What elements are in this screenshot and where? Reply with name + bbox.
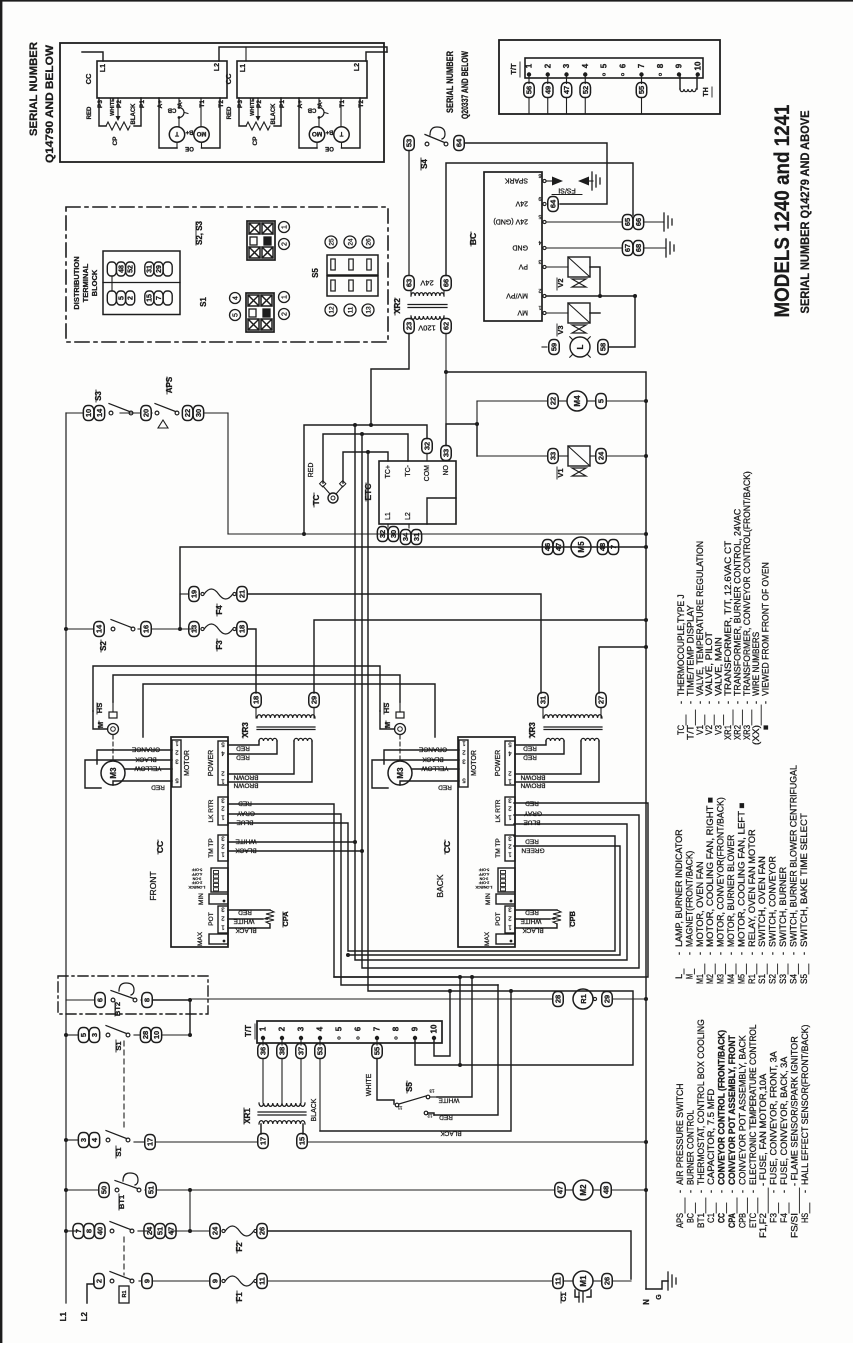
svg-text:FS/SI: FS/SI — [789, 1213, 799, 1238]
svg-text:-: - — [696, 1190, 706, 1193]
wire HS riser — [399, 702, 401, 712]
svg-text:B+: B+ — [185, 129, 193, 135]
wire S5 13 WHITE — [430, 1096, 437, 1098]
svg-text:RED: RED — [238, 909, 252, 916]
wire riser x511 BLACK — [320, 991, 511, 1131]
svg-text:4-OFF: 4-OFF — [478, 872, 489, 876]
svg-text:24V: 24V — [515, 200, 528, 207]
right circle MO — [194, 127, 209, 142]
svg-text:C1: C1 — [706, 1213, 716, 1223]
svg-text:CB: CB — [167, 107, 176, 113]
terminal pill 55 — [376, 1040, 378, 1045]
wire BT2 to S1 net — [153, 1000, 191, 1035]
svg-text:5: 5 — [233, 313, 240, 317]
svg-text:6: 6 — [354, 1026, 363, 1031]
svg-text:CONVEYOR POT ASSEMBLY, BACK: CONVEYOR POT ASSEMBLY, BACK — [737, 1035, 747, 1185]
svg-text:POT: POT — [208, 912, 215, 925]
svg-text:-: - — [675, 1190, 685, 1193]
svg-text:11: 11 — [348, 306, 355, 313]
svg-text:4: 4 — [233, 296, 240, 300]
svg-text:F4: F4 — [215, 605, 224, 615]
wire lamp to MV/PV net — [609, 296, 636, 347]
svg-text:M: M — [383, 722, 392, 728]
svg-text:-: - — [778, 952, 788, 955]
conveyor pot CPA/CPB — [266, 910, 274, 924]
TM TP connector — [218, 835, 228, 861]
right circle T — [334, 127, 349, 142]
fuse F2 — [210, 1224, 221, 1239]
svg-text:CPB: CPB — [737, 1213, 747, 1228]
svg-text:SWITCH, OVEN FAN: SWITCH, OVEN FAN — [757, 856, 767, 947]
pot wires RED WHITE BLACK — [228, 909, 270, 911]
wire M4 to bus — [607, 400, 647, 402]
svg-text:CONVEYOR CONTROL (FRONT/BACK): CONVEYOR CONTROL (FRONT/BACK) — [717, 1030, 727, 1185]
svg-text:3: 3 — [90, 1033, 99, 1037]
conveyor control CC main box front — [171, 737, 228, 947]
svg-text:MOTOR: MOTOR — [471, 750, 478, 776]
svg-text:BROWN: BROWN — [520, 774, 545, 781]
svg-text:MOTOR, COOLING FAN, LEFT ■: MOTOR, COOLING FAN, LEFT ■ — [736, 803, 746, 947]
svg-text:64: 64 — [455, 138, 464, 147]
wire junction down to bus Y534 — [227, 413, 229, 534]
svg-text:59: 59 — [550, 343, 559, 351]
contact circle 2 — [279, 239, 290, 250]
svg-text:L2: L2 — [405, 512, 412, 520]
magnet M — [108, 724, 119, 735]
terminal pill 38 — [281, 1040, 283, 1045]
svg-text:22: 22 — [549, 397, 558, 405]
svg-text:-: - — [747, 952, 757, 955]
relay R1 — [573, 989, 593, 1009]
contact circle 4 — [230, 293, 241, 304]
wire riser x472 to S5 — [437, 977, 472, 1097]
svg-text:29: 29 — [310, 696, 319, 704]
hall sensor HS — [109, 712, 117, 718]
svg-text:1-ON/BCK: 1-ON/BCK — [475, 885, 493, 889]
svg-text:4: 4 — [316, 1026, 325, 1031]
svg-text:52: 52 — [581, 86, 590, 94]
svg-text:L2: L2 — [214, 63, 221, 71]
wire BC 24V(GND) to ground — [546, 221, 622, 223]
svg-text:26: 26 — [603, 1277, 612, 1285]
thermostat BT1 row — [99, 1183, 110, 1198]
conveyor pot CPA/CPB — [553, 910, 561, 924]
wire front HS to back HS Y675 — [113, 675, 400, 702]
svg-text:FUSE, CONVEYOR, BACK, 3A: FUSE, CONVEYOR, BACK, 3A — [779, 1057, 789, 1185]
svg-text:2: 2 — [543, 63, 552, 68]
svg-text:CC: CC — [224, 73, 233, 84]
svg-text:-: - — [737, 1190, 747, 1193]
svg-text:BT2: BT2 — [113, 1002, 122, 1016]
switch S1 row upper — [78, 1028, 89, 1043]
svg-text:2: 2 — [282, 312, 289, 316]
svg-text:HS: HS — [95, 703, 104, 713]
wire BC MV/PV — [546, 295, 635, 297]
motor M5 row on bus Y547 — [542, 540, 553, 555]
svg-text:RELAY, OVEN FAN MOTOR: RELAY, OVEN FAN MOTOR — [747, 829, 757, 947]
svg-text:-: - — [695, 952, 705, 955]
svg-text:F2: F2 — [235, 1242, 244, 1252]
conveyor control CC box (inset) — [97, 61, 227, 98]
svg-text:15: 15 — [298, 1137, 307, 1145]
svg-text:120V: 120V — [418, 324, 436, 333]
svg-text:SWITCH, BURNER BLOWER CENTRIF: SWITCH, BURNER BLOWER CENTRIFUGAL — [788, 765, 798, 947]
svg-text:28: 28 — [554, 995, 563, 1003]
svg-text:58: 58 — [599, 343, 608, 351]
electronic temperature control ETC box — [379, 461, 456, 524]
svg-text:WHITE: WHITE — [235, 838, 257, 845]
MAX jumper — [496, 934, 515, 944]
terminal strip T/T (main) — [257, 1021, 442, 1043]
svg-text:10: 10 — [693, 61, 702, 70]
svg-text:-: - — [705, 952, 715, 955]
svg-text:-: - — [674, 952, 684, 955]
wire T2 loop under right circle — [202, 98, 221, 148]
contact circle 26 — [362, 236, 374, 248]
svg-text:31: 31 — [412, 533, 421, 541]
relay coil AR1 — [119, 1286, 129, 1303]
svg-text:S2: S2 — [99, 641, 108, 651]
svg-text:LK RTR: LK RTR — [208, 799, 215, 822]
wire 53 BLACK down — [319, 1059, 321, 1132]
svg-text:T: T — [175, 130, 179, 137]
XR2 24V secondary coil — [411, 293, 444, 296]
svg-text:2: 2 — [128, 296, 135, 300]
terminal pill 36 — [262, 1040, 264, 1045]
wire F3 to front XR3 — [248, 629, 257, 693]
terminal pill 53 — [319, 1040, 321, 1045]
wire 53 to XR2 secondary — [408, 151, 410, 276]
svg-text:53: 53 — [316, 1047, 325, 1055]
svg-text:TM TP: TM TP — [208, 838, 215, 857]
svg-text:LAMP, BURNER INDICATOR: LAMP, BURNER INDICATOR — [674, 829, 684, 947]
svg-text:ORANGE: ORANGE — [418, 746, 447, 753]
wire CC2 L1 drop — [245, 47, 247, 61]
MAX jumper — [209, 934, 228, 944]
svg-text:BLACK: BLACK — [422, 756, 444, 763]
svg-text:-: - — [685, 1190, 695, 1193]
svg-text:MAX: MAX — [197, 931, 204, 946]
svg-text:9: 9 — [143, 1279, 152, 1283]
svg-text:2: 2 — [278, 1026, 287, 1031]
MIN jumper — [496, 894, 515, 904]
svg-text:18: 18 — [238, 625, 247, 633]
switch S1 rocker — [246, 293, 274, 332]
XR2 core — [408, 304, 447, 306]
terminal pills 48 52 — [107, 262, 116, 276]
svg-text:CPA: CPA — [727, 1213, 737, 1228]
svg-text:WHITE: WHITE — [250, 98, 256, 116]
svg-text:VIEWED FROM FRONT OF OVEN: VIEWED FROM FRONT OF OVEN — [761, 562, 771, 696]
svg-text:MV/PV: MV/PV — [506, 292, 528, 299]
burner indicator lamp L — [549, 340, 560, 355]
LK RTR connector — [218, 797, 228, 825]
svg-text:CC: CC — [84, 73, 93, 84]
svg-text:P2: P2 — [116, 100, 123, 108]
svg-text:48: 48 — [118, 265, 125, 273]
svg-text:COM: COM — [424, 465, 431, 482]
svg-text:38: 38 — [278, 1047, 287, 1055]
svg-text:BLACK: BLACK — [522, 927, 544, 934]
wire F2 to M1 branch — [268, 1231, 632, 1279]
wire node to M4 row — [476, 401, 478, 424]
contact circle 5 — [230, 310, 241, 321]
svg-text:RED: RED — [238, 800, 252, 807]
svg-text:2-OFF: 2-OFF — [191, 881, 202, 885]
svg-text:POT: POT — [495, 912, 502, 925]
oven fan motor M1 row — [553, 1274, 564, 1289]
svg-text:4: 4 — [538, 239, 541, 245]
svg-text:R1: R1 — [747, 974, 757, 984]
svg-text:GND: GND — [512, 244, 528, 251]
contact circle 24 — [344, 236, 356, 248]
svg-text:SWITCH, CONVEYOR: SWITCH, CONVEYOR — [768, 856, 778, 947]
row S2 conveyor switch — [94, 622, 105, 637]
POT connector — [505, 906, 515, 933]
svg-text:CC: CC — [717, 1213, 727, 1223]
contact circle 13 — [362, 304, 374, 316]
oven fan switch row with F2 — [73, 1224, 84, 1239]
svg-text:F1,F2: F1,F2 — [758, 1213, 768, 1238]
svg-text:28: 28 — [141, 1031, 150, 1039]
svg-text:BLACK: BLACK — [135, 756, 157, 763]
svg-text:5-OFF: 5-OFF — [478, 868, 489, 872]
MOTOR connector — [459, 740, 468, 787]
svg-text:BC: BC — [468, 233, 478, 245]
svg-text:A+: A+ — [297, 100, 304, 109]
wire down from pill 49 — [547, 98, 549, 114]
riser BT1 to F2 row — [189, 1190, 191, 1231]
wire down from pill 55 — [641, 98, 643, 114]
svg-text:64: 64 — [549, 199, 558, 208]
conveyor motor M3 — [101, 761, 125, 785]
svg-text:M2: M2 — [579, 1184, 588, 1196]
svg-text:9: 9 — [675, 63, 684, 68]
svg-text:GRAY: GRAY — [236, 810, 255, 817]
svg-text:55: 55 — [373, 1047, 382, 1055]
svg-text:L2: L2 — [80, 1311, 89, 1321]
svg-text:3: 3 — [562, 63, 571, 68]
wire down from pill 52 — [584, 98, 586, 114]
terminal pill 66 — [441, 276, 452, 291]
wire junction up to F4 — [179, 594, 181, 629]
svg-text:21: 21 — [238, 590, 247, 598]
svg-text:BLUE: BLUE — [236, 819, 254, 826]
svg-text:T2: T2 — [218, 100, 225, 108]
svg-text:C1: C1 — [559, 1292, 568, 1302]
svg-text:2: 2 — [282, 242, 289, 246]
svg-text:49: 49 — [543, 86, 552, 94]
terminal pill 49 — [547, 76, 549, 84]
svg-text:CC: CC — [442, 841, 452, 853]
svg-text:TERMINAL: TERMINAL — [81, 263, 90, 302]
terminal pills 65 66 — [622, 215, 633, 230]
fan switch row with F1 — [94, 1274, 105, 1289]
svg-text:F3: F3 — [769, 1213, 779, 1223]
wire L1 stub of CC1 — [82, 52, 103, 61]
svg-text:SERIAL NUMBER Q14279 AND ABOVE: SERIAL NUMBER Q14279 AND ABOVE — [800, 110, 812, 313]
svg-text:55: 55 — [637, 86, 646, 94]
svg-text:11: 11 — [554, 1277, 563, 1285]
svg-text:BC: BC — [685, 1213, 695, 1223]
terminal pill 64 — [454, 136, 465, 151]
svg-text:53: 53 — [405, 139, 414, 147]
svg-text:P3: P3 — [97, 100, 104, 108]
svg-text:4: 4 — [581, 63, 590, 68]
svg-text:R1: R1 — [579, 994, 588, 1004]
svg-text:12: 12 — [427, 1114, 433, 1119]
svg-text:1: 1 — [282, 225, 289, 229]
svg-text:BLACK: BLACK — [235, 927, 257, 934]
svg-text:30: 30 — [389, 530, 398, 538]
wire T2 loop under right circle — [342, 98, 361, 148]
motor loop YELLOW — [412, 768, 459, 770]
svg-text:BLOCK: BLOCK — [90, 269, 99, 296]
terminal pill 52 — [584, 76, 586, 84]
XR2 coil stubs — [410, 291, 412, 297]
svg-text:M2: M2 — [705, 974, 715, 984]
svg-text:THERMOSTAT, CONTROL BOX COOLIN: THERMOSTAT, CONTROL BOX COOLING — [696, 1019, 706, 1185]
XR3 pills — [251, 693, 262, 708]
contact circle 2 — [279, 309, 290, 320]
page edge artifacts — [0, 0, 2, 1343]
svg-text:TH: TH — [703, 87, 710, 96]
svg-text:ELECTRONIC TEMPERATURE CONTROL: ELECTRONIC TEMPERATURE CONTROL — [748, 1025, 758, 1186]
svg-text:RED: RED — [523, 745, 537, 752]
svg-text:Q20337 AND BELOW: Q20337 AND BELOW — [460, 51, 471, 119]
svg-text:1: 1 — [259, 1026, 268, 1031]
row S3 burner switch — [83, 406, 94, 421]
flame sensor / spark ignitor FS/SI — [546, 180, 552, 182]
contact circle 25 — [325, 236, 337, 248]
svg-text:17: 17 — [146, 1138, 155, 1146]
svg-text:17: 17 — [259, 1137, 268, 1145]
svg-text:48: 48 — [598, 543, 607, 551]
svg-text:MO: MO — [312, 130, 322, 137]
svg-text:T/T: T/T — [509, 63, 518, 75]
hall sensor HS — [396, 712, 404, 718]
svg-text:1: 1 — [282, 295, 289, 299]
svg-text:WHITE: WHITE — [438, 1097, 460, 1104]
svg-text:29: 29 — [156, 265, 163, 273]
svg-text:NO: NO — [443, 464, 450, 475]
wire CC2 L2 drop — [366, 52, 387, 61]
svg-text:BT1: BT1 — [117, 1195, 126, 1209]
svg-text:M5: M5 — [577, 541, 586, 553]
thermostat BT2 dashed box — [58, 976, 208, 1014]
svg-text:A-: A- — [177, 100, 184, 107]
svg-text:-: - — [748, 1190, 758, 1193]
svg-text:9: 9 — [411, 1026, 420, 1031]
wire COM up-left to bus Y534 — [304, 425, 427, 534]
fuse F3 row — [189, 622, 200, 637]
wiper WHITE arrow from P2 — [117, 98, 119, 117]
svg-text:OE: OE — [185, 145, 194, 151]
terminal pills 31 29 — [145, 262, 154, 276]
XR3 secondary coil right — [294, 738, 312, 741]
terminal pills 67 68 — [622, 241, 633, 256]
svg-text:-: - — [761, 701, 771, 704]
svg-text:M3: M3 — [716, 974, 726, 984]
svg-text:14: 14 — [95, 624, 104, 633]
svg-text:47: 47 — [554, 543, 563, 551]
distribution terminal block dashed box — [66, 207, 388, 342]
svg-text:RED: RED — [236, 745, 250, 752]
svg-text:10: 10 — [430, 1024, 439, 1033]
ground GND pin — [665, 239, 667, 257]
svg-text:2: 2 — [538, 287, 541, 293]
svg-text:HS: HS — [382, 703, 391, 713]
dashed magnet link — [112, 735, 114, 760]
svg-text:M3: M3 — [396, 767, 405, 779]
svg-text:F3: F3 — [215, 640, 224, 650]
svg-text:48: 48 — [602, 1186, 611, 1194]
svg-text:T1: T1 — [199, 100, 206, 108]
wires POWER RED to XR3 — [228, 741, 259, 745]
svg-text:6: 6 — [618, 63, 627, 68]
svg-text:L1: L1 — [100, 64, 107, 72]
svg-text:TC-: TC- — [405, 464, 412, 476]
terminal pill 33 at NO — [441, 446, 452, 461]
svg-text:32: 32 — [423, 442, 432, 450]
svg-text:10: 10 — [84, 409, 93, 417]
wire A+ loop under left circle — [159, 98, 177, 148]
svg-text:F4: F4 — [779, 1213, 789, 1223]
svg-text:23: 23 — [405, 322, 414, 330]
motor loop BLACK — [372, 760, 459, 788]
svg-text:-: - — [800, 1190, 810, 1193]
svg-text:RED: RED — [439, 1114, 453, 1121]
svg-text:RED: RED — [236, 754, 250, 761]
svg-text:SWITCH, BAKE TIME SELECT: SWITCH, BAKE TIME SELECT — [799, 813, 809, 947]
svg-text:M1: M1 — [579, 1275, 588, 1287]
wire front XR3 right feed Y620 — [314, 620, 646, 693]
motor loop BLACK — [85, 760, 172, 788]
svg-text:TC: TC — [312, 494, 321, 505]
svg-text:63: 63 — [405, 279, 414, 287]
wire XR1 15 to bus — [301, 1141, 303, 1143]
svg-text:3: 3 — [79, 1138, 88, 1142]
svg-text:33: 33 — [549, 452, 558, 460]
svg-text:BROWN: BROWN — [233, 782, 258, 789]
terminal pill 55 — [641, 76, 643, 84]
terminal pills 22 30 — [182, 406, 193, 421]
svg-text:8: 8 — [85, 1229, 94, 1233]
svg-text:5: 5 — [335, 1026, 344, 1031]
svg-text:2-OFF: 2-OFF — [478, 881, 489, 885]
svg-text:10: 10 — [152, 1031, 161, 1039]
svg-text:-: - — [769, 1190, 779, 1193]
svg-text:24V (GND): 24V (GND) — [493, 218, 528, 225]
wire F1 to M1 — [268, 1280, 553, 1282]
svg-text:24: 24 — [597, 451, 606, 460]
svg-text:T1: T1 — [339, 100, 346, 108]
wires T/T to XR1 — [262, 1059, 264, 1104]
wire Y684 link — [143, 684, 435, 737]
svg-text:BLACK: BLACK — [271, 103, 277, 125]
wire XR2 23 down to ETC TC- net — [371, 334, 409, 426]
svg-text:F1: F1 — [235, 1292, 244, 1302]
wire V2 to MV/PV net — [590, 267, 600, 296]
svg-text:HALL EFFECT SENSOR(FRONT/BACK): HALL EFFECT SENSOR(FRONT/BACK) — [800, 1025, 810, 1186]
svg-text:20: 20 — [142, 409, 151, 417]
wires POWER RED to XR3 — [515, 741, 546, 745]
svg-text:CP: CP — [112, 136, 119, 146]
svg-text:RED: RED — [438, 784, 452, 791]
svg-text:MIN: MIN — [198, 893, 205, 905]
motor RED lead — [400, 781, 459, 785]
svg-text:CONVEYOR POT ASSEMBLY, FRONT: CONVEYOR POT ASSEMBLY, FRONT — [727, 1035, 737, 1185]
